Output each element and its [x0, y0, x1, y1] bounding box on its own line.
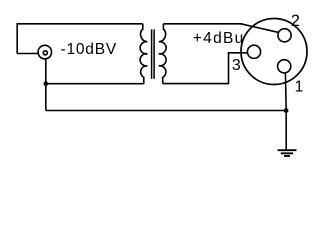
svg-text:2: 2	[291, 12, 300, 30]
wire RCA ground down	[45, 59, 47, 111]
svg-text:3: 3	[232, 57, 241, 74]
connector J1 RCA center pin	[43, 51, 47, 55]
connector J1 RCA outer shell	[38, 45, 52, 59]
connector J2 pin 1	[278, 60, 291, 73]
wire primary top loop	[17, 24, 143, 54]
connector J2 pin 3	[247, 45, 260, 58]
wire secondary top	[163, 23, 242, 25]
wire pin 1 to ground	[284, 73, 287, 150]
svg-text:+4dBu: +4dBu	[193, 30, 245, 47]
wire ground bus	[46, 110, 286, 112]
wire RCA feed	[17, 53, 39, 55]
transformer T1 primary winding	[140, 24, 147, 84]
node junction dot right	[284, 108, 289, 113]
node junction dot left	[44, 81, 49, 86]
connector J2 XLR shell	[241, 19, 307, 85]
wire secondary bottom to pin 3	[163, 53, 248, 84]
connector J2 pin 2	[278, 29, 291, 42]
transformer T1 secondary winding	[159, 24, 166, 84]
svg-text:-10dBV: -10dBV	[61, 41, 118, 58]
transformer T1 core	[152, 29, 155, 79]
wire diagonal to pin 2	[241, 24, 278, 33]
svg-text:1: 1	[295, 79, 304, 96]
ground symbol	[278, 150, 297, 156]
wire primary bottom	[46, 83, 144, 85]
